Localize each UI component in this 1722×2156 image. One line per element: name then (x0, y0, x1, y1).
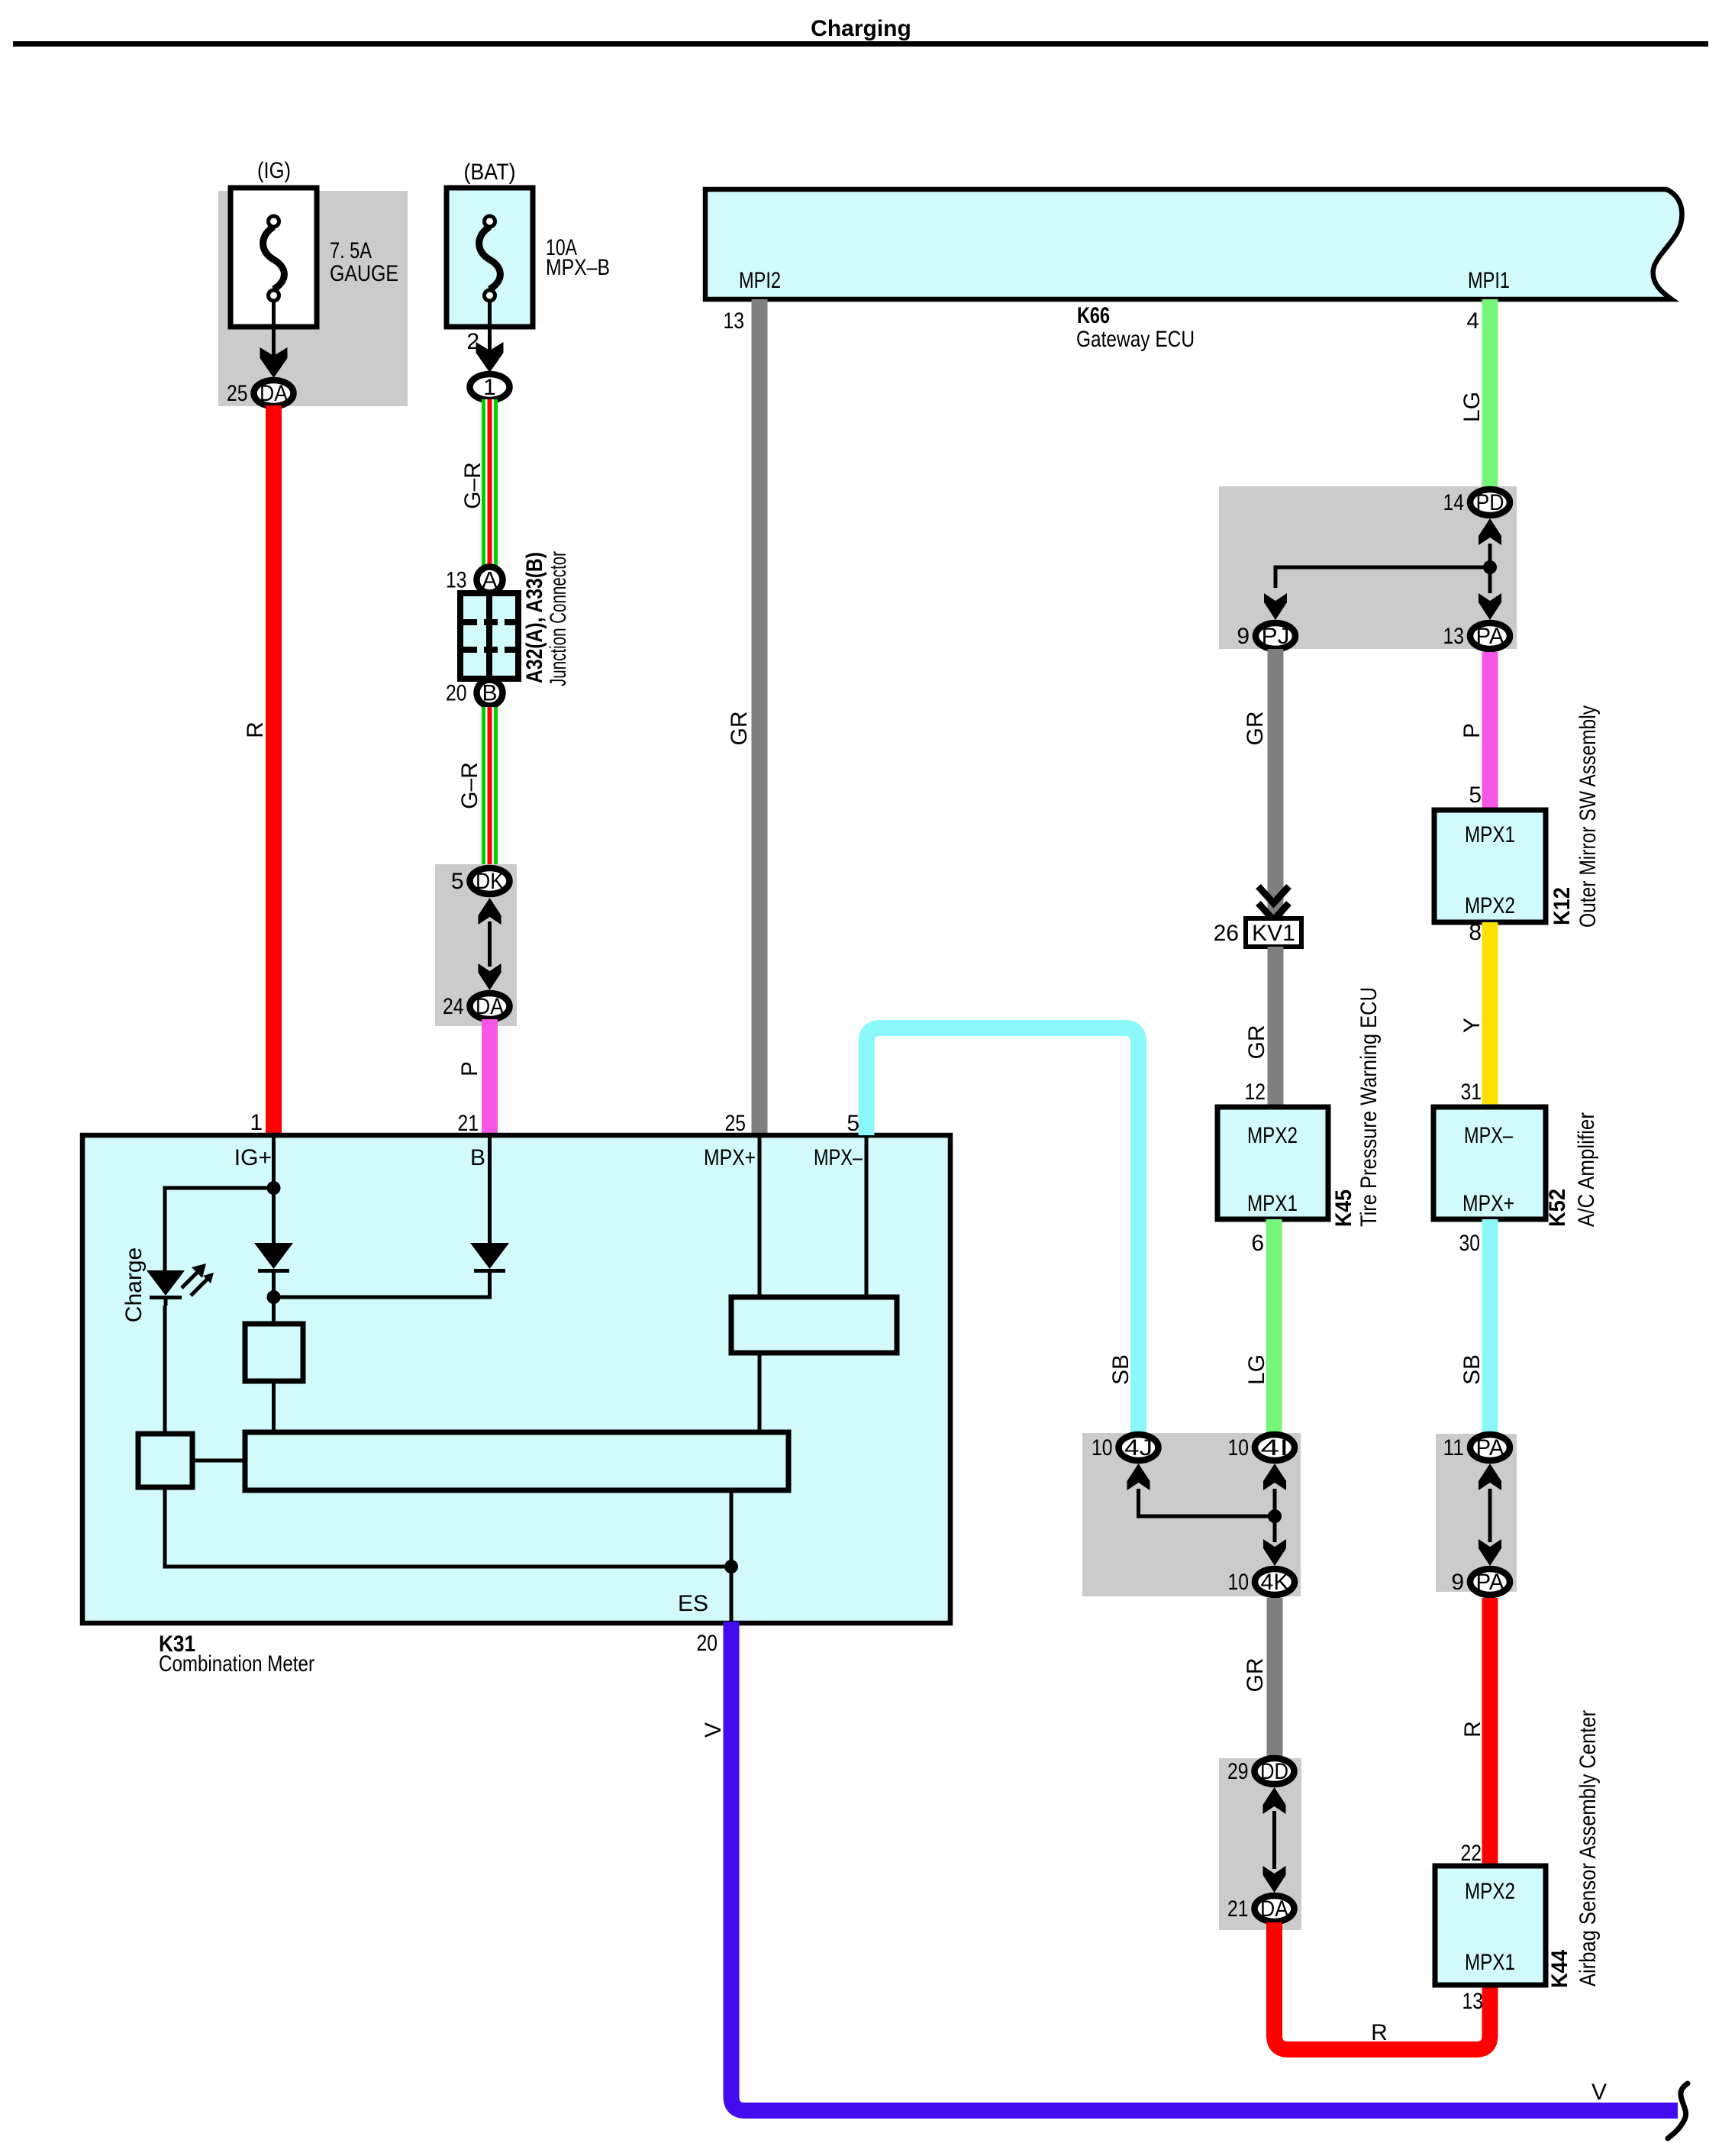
svg-text:Gateway ECU: Gateway ECU (1076, 327, 1195, 352)
wire to charge LED (165, 1188, 274, 1270)
wire DD to DA (1272, 1811, 1276, 1869)
wire GR (4K to DD) (1267, 1598, 1283, 1758)
junction connector A32/A33 box (460, 593, 518, 679)
fuse 7.5A GAUGE (231, 188, 317, 359)
wire P (PA to K12) (1482, 652, 1498, 810)
svg-text:6: 6 (1251, 1231, 1264, 1256)
svg-text:4K: 4K (1261, 1570, 1289, 1595)
svg-text:11: 11 (1443, 1435, 1465, 1460)
svg-text:(BAT): (BAT) (464, 160, 516, 185)
svg-text:31: 31 (1461, 1080, 1482, 1105)
shield chevrons (1259, 886, 1289, 920)
wire P (B feed) (482, 1019, 498, 1135)
svg-text:DA: DA (476, 994, 504, 1019)
svg-text:KV1: KV1 (1252, 921, 1295, 946)
svg-text:B: B (482, 681, 497, 706)
airbag sensor K44 box (1435, 1866, 1546, 1985)
svg-text:MPX+: MPX+ (704, 1145, 756, 1170)
svg-text:10: 10 (1092, 1435, 1113, 1460)
connector KV1 pin 26 (1214, 918, 1301, 947)
svg-text:30: 30 (1459, 1231, 1481, 1256)
svg-text:MPX2: MPX2 (1465, 893, 1515, 918)
node ES junction (724, 1560, 738, 1573)
internal box U1 (245, 1324, 303, 1381)
svg-text:DA: DA (1260, 1896, 1288, 1922)
svg-text:MPX–B: MPX–B (546, 255, 610, 280)
wire U1 to main block (272, 1381, 276, 1432)
outer mirror SW K12 box (1434, 810, 1546, 922)
wire GR (MPX+) (752, 299, 768, 1135)
diode D1 (IG+ line) (254, 1243, 293, 1273)
svg-text:G–R: G–R (460, 462, 485, 509)
wire GR (PJ to KV1) (1268, 649, 1284, 918)
svg-text:SB: SB (1108, 1354, 1133, 1385)
node D1 junction (267, 1290, 281, 1304)
wire LG (K45 to 4I) (1266, 1219, 1282, 1433)
arrow into DA (21) (1263, 1866, 1286, 1893)
svg-text:V: V (1591, 2080, 1607, 2105)
svg-text:Tire Pressure Warning ECU: Tire Pressure Warning ECU (1356, 987, 1382, 1227)
svg-text:GR: GR (727, 712, 752, 746)
wire MPX- internal (865, 1135, 869, 1297)
arrow out of PA (11) (1479, 1464, 1501, 1490)
connector 1 (470, 374, 510, 400)
wire PA to PA (1488, 1489, 1492, 1542)
connector DA pin 21 (1227, 1896, 1295, 1922)
svg-text:DK: DK (476, 869, 504, 894)
svg-text:9: 9 (1237, 624, 1250, 649)
svg-text:K44: K44 (1547, 1950, 1572, 1988)
svg-text:R: R (243, 721, 268, 738)
svg-text:10: 10 (1228, 1570, 1250, 1595)
svg-text:4I: 4I (1261, 1435, 1289, 1460)
svg-text:GR: GR (1243, 1658, 1268, 1693)
svg-text:20: 20 (446, 681, 467, 706)
connector 4I pin 10 (1228, 1435, 1295, 1460)
wire node to diode D2 (274, 1273, 490, 1297)
LED charge indicator (147, 1264, 214, 1306)
svg-text:MPX2: MPX2 (1465, 1879, 1515, 1904)
wire R (DA to K44 pin 13) (1275, 1922, 1491, 2050)
svg-text:Airbag Sensor Assembly Center: Airbag Sensor Assembly Center (1575, 1710, 1601, 1987)
connector PD pin 14 (1443, 489, 1511, 515)
wire PD to junction (1488, 544, 1492, 593)
wire G-R lower segment (482, 707, 498, 868)
svg-text:K12: K12 (1549, 887, 1575, 925)
svg-text:4J: 4J (1124, 1435, 1153, 1460)
svg-text:PA: PA (1476, 1435, 1504, 1460)
svg-text:22: 22 (1461, 1841, 1482, 1866)
wire SB (MPX- to 4J) (866, 1028, 1139, 1434)
arrow into 4K (1263, 1539, 1286, 1566)
svg-text:7. 5A: 7. 5A (330, 238, 372, 263)
gateway ECU K66 box (705, 189, 1682, 299)
combination meter K31 box (82, 1135, 950, 1623)
arrow into PA (1479, 593, 1501, 620)
A/C amplifier K52 box (1433, 1107, 1546, 1219)
svg-text:MPI2: MPI2 (739, 268, 781, 293)
svg-text:21: 21 (1227, 1896, 1249, 1922)
fuse 10A MPX-B (447, 188, 533, 359)
connector PA pin 9 (1451, 1569, 1510, 1595)
svg-text:Charge: Charge (121, 1247, 147, 1322)
connector 4J pin 10 (1092, 1435, 1159, 1460)
wire D1 to node (272, 1273, 276, 1324)
svg-text:DA: DA (260, 381, 288, 406)
svg-text:GAUGE: GAUGE (330, 261, 398, 286)
svg-text:MPI1: MPI1 (1468, 268, 1510, 293)
bus break squiggle (1668, 2083, 1688, 2138)
wire GR (KV1 to K45) (1268, 947, 1284, 1107)
connector PA pin 13 (1443, 623, 1511, 649)
svg-text:PJ: PJ (1262, 624, 1290, 649)
diode D2 (B line) (470, 1243, 509, 1273)
internal main block (245, 1432, 788, 1490)
wire IG+ internal (272, 1135, 276, 1243)
svg-text:13: 13 (446, 568, 467, 593)
svg-text:8: 8 (1469, 920, 1482, 945)
wire R (IG+ feed) (266, 405, 282, 1135)
arrow out of 4J (1127, 1464, 1150, 1490)
svg-text:5: 5 (846, 1111, 859, 1136)
svg-text:4: 4 (1466, 308, 1479, 334)
svg-text:24: 24 (443, 994, 464, 1019)
arrow out of DD (1263, 1787, 1286, 1814)
svg-text:G–R: G–R (457, 762, 482, 809)
svg-text:Junction Connector: Junction Connector (546, 551, 571, 686)
connector PA pin 11 (1443, 1435, 1511, 1460)
wire R (PA to K44) (1482, 1598, 1498, 1866)
svg-text:(IG): (IG) (257, 158, 291, 183)
internal box U2 (138, 1434, 192, 1487)
fuse block background (IG) (218, 191, 408, 406)
svg-text:26: 26 (1214, 921, 1239, 946)
arrow into DA (479, 963, 501, 990)
svg-text:P: P (1459, 723, 1485, 738)
svg-text:PA: PA (1476, 1570, 1504, 1595)
svg-text:10: 10 (1228, 1435, 1250, 1460)
svg-text:DD: DD (1260, 1759, 1288, 1784)
svg-text:29: 29 (1227, 1759, 1249, 1784)
svg-text:LG: LG (1459, 392, 1485, 422)
connector block background PD/PJ/PA (1219, 486, 1517, 649)
wire MPX box to main block (758, 1353, 762, 1432)
svg-text:1: 1 (250, 1110, 263, 1135)
svg-text:MPX2: MPX2 (1247, 1123, 1298, 1148)
connector DK pin 5 (451, 868, 510, 894)
arrow out of DK (479, 898, 501, 925)
svg-text:PD: PD (1476, 490, 1504, 515)
arrow into PJ (1264, 593, 1287, 620)
svg-text:14: 14 (1443, 490, 1465, 515)
svg-text:21: 21 (458, 1111, 479, 1136)
svg-text:13: 13 (724, 308, 745, 334)
connector DA pin 24 (443, 993, 510, 1019)
arrow into connector 1 (476, 342, 504, 373)
svg-text:K66: K66 (1077, 303, 1110, 328)
svg-text:LG: LG (1244, 1354, 1269, 1385)
svg-text:GR: GR (1244, 1025, 1269, 1060)
svg-text:MPX–: MPX– (1464, 1123, 1513, 1148)
arrow out of PD (1479, 518, 1501, 545)
svg-text:5: 5 (451, 869, 464, 894)
svg-text:ES: ES (678, 1591, 708, 1616)
svg-text:R: R (1371, 2020, 1388, 2045)
svg-text:PA: PA (1476, 624, 1504, 649)
internal MPX interface box (731, 1297, 897, 1353)
wire split to PJ (1275, 567, 1490, 588)
wire 4I to node (1273, 1489, 1277, 1542)
svg-text:V: V (701, 1722, 726, 1738)
svg-text:12: 12 (1245, 1080, 1266, 1105)
junction connector pin B (446, 680, 503, 706)
wire ES internal (730, 1490, 734, 1623)
node PD split (1483, 560, 1497, 574)
connector block background DK/DA (435, 864, 517, 1026)
connector block background 4J/4I/4K (1082, 1433, 1301, 1596)
svg-text:K45: K45 (1331, 1189, 1356, 1227)
svg-text:B: B (470, 1145, 485, 1170)
node 4I/4J/4K junction (1268, 1509, 1282, 1523)
svg-text:A32(A), A33(B): A32(A), A33(B) (522, 552, 547, 683)
svg-text:MPX–: MPX– (814, 1145, 863, 1170)
wire node to 4J (1139, 1489, 1275, 1516)
arrow into PA (9) (1479, 1539, 1501, 1566)
svg-text:A: A (482, 568, 497, 593)
svg-text:K52: K52 (1545, 1189, 1570, 1227)
connector DD pin 29 (1227, 1758, 1295, 1784)
title rule (13, 41, 1708, 47)
svg-text:SB: SB (1459, 1354, 1485, 1385)
connector 4K pin 10 (1228, 1569, 1295, 1595)
wire LG (MPI1 to PD) (1482, 299, 1498, 489)
tire pressure warning ECU K45 box (1217, 1107, 1328, 1219)
wire U2 to main block (192, 1459, 245, 1463)
connector block background DD/DA (1219, 1758, 1301, 1930)
svg-text:IG+: IG+ (234, 1145, 272, 1170)
wire SB (K52 to PA) (1482, 1219, 1498, 1433)
wire LED down-left branch (165, 1306, 724, 1567)
wire D2 to pin B (488, 1135, 492, 1243)
node IG+ junction (267, 1181, 281, 1195)
connector PJ pin 9 (1237, 623, 1295, 649)
svg-text:Outer Mirror SW Assembly: Outer Mirror SW Assembly (1575, 705, 1601, 928)
wire Y (K12 to K52) (1482, 922, 1498, 1107)
arrow into connector DA (260, 347, 288, 378)
svg-text:13: 13 (1462, 1989, 1484, 2014)
svg-text:GR: GR (1243, 712, 1268, 746)
svg-text:25: 25 (725, 1111, 747, 1136)
svg-text:A/C Amplifier: A/C Amplifier (1574, 1112, 1599, 1227)
connector DA pin 25 (227, 380, 294, 406)
svg-text:MPX1: MPX1 (1465, 822, 1515, 847)
connector block background PA/PA (1436, 1434, 1517, 1592)
svg-text:P: P (457, 1061, 482, 1076)
wire G-R upper segment (482, 399, 498, 569)
svg-text:Y: Y (1459, 1018, 1485, 1033)
svg-text:9: 9 (1451, 1570, 1464, 1595)
svg-text:R: R (1460, 1721, 1485, 1738)
junction connector pin A (446, 567, 503, 593)
wire between DK and DA (488, 921, 492, 967)
svg-text:5: 5 (1469, 783, 1482, 808)
svg-text:1: 1 (483, 375, 496, 400)
svg-text:Combination Meter: Combination Meter (159, 1651, 314, 1677)
svg-text:13: 13 (1443, 624, 1465, 649)
wire MPX+ internal (758, 1135, 762, 1297)
wire V (ES ground bus) (731, 1622, 1678, 2111)
svg-text:Charging: Charging (811, 16, 911, 41)
svg-text:MPX1: MPX1 (1465, 1950, 1515, 1975)
svg-text:25: 25 (227, 381, 248, 406)
arrow out of 4I (1263, 1464, 1286, 1490)
svg-text:MPX1: MPX1 (1247, 1191, 1298, 1216)
svg-text:MPX+: MPX+ (1462, 1191, 1514, 1216)
svg-text:20: 20 (697, 1631, 718, 1656)
